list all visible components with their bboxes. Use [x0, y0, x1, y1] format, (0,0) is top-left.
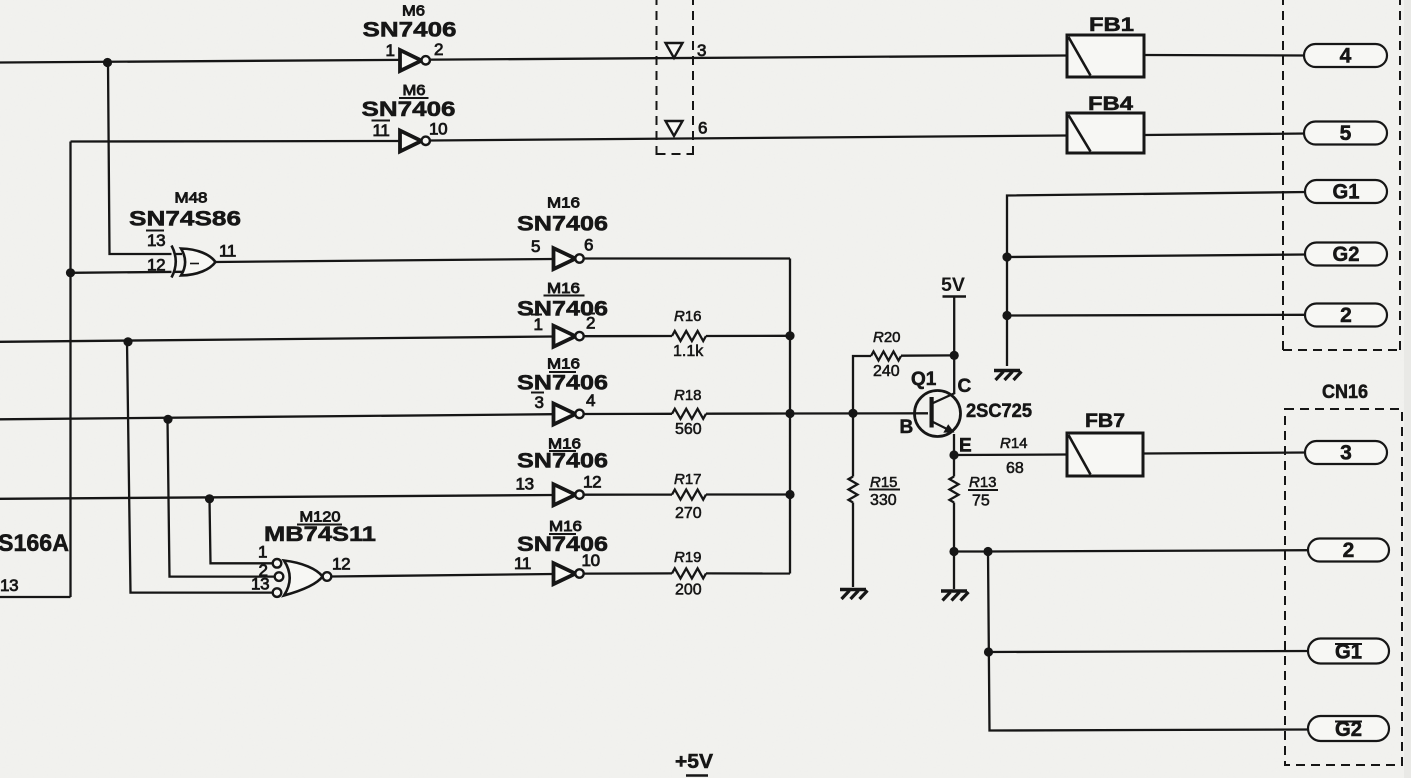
svg-text:R19: R19 [674, 549, 702, 566]
svg-text:13: 13 [251, 575, 269, 594]
svg-text:1: 1 [386, 41, 395, 60]
svg-text:11: 11 [219, 242, 236, 261]
svg-text:M16: M16 [547, 280, 580, 297]
svg-text:SN7406: SN7406 [362, 98, 456, 121]
svg-text:M16: M16 [547, 195, 580, 212]
svg-text:270: 270 [675, 505, 702, 522]
svg-text:2: 2 [1343, 539, 1355, 562]
svg-text:75: 75 [972, 493, 990, 510]
svg-text:240: 240 [873, 363, 900, 380]
svg-text:13: 13 [147, 231, 165, 250]
svg-text:13: 13 [516, 475, 534, 494]
svg-text:Q1: Q1 [911, 369, 937, 390]
svg-text:2: 2 [1340, 304, 1352, 327]
svg-text:5V: 5V [941, 275, 965, 296]
svg-text:E: E [959, 436, 972, 457]
svg-text:5: 5 [531, 237, 540, 256]
svg-text:R13: R13 [969, 474, 997, 491]
svg-text:12: 12 [583, 473, 601, 492]
svg-text:3: 3 [535, 393, 544, 412]
svg-text:+5V: +5V [675, 751, 714, 773]
svg-text:M48: M48 [175, 190, 208, 207]
svg-text:2: 2 [586, 314, 595, 333]
svg-text:10: 10 [582, 551, 600, 570]
svg-text:68: 68 [1006, 460, 1024, 477]
svg-text:13: 13 [0, 576, 18, 595]
svg-text:C: C [958, 376, 972, 397]
svg-text:R15: R15 [870, 474, 898, 491]
svg-text:M6: M6 [402, 3, 425, 20]
svg-text:G2: G2 [1333, 243, 1360, 266]
svg-text:1: 1 [534, 315, 543, 334]
svg-text:R20: R20 [873, 329, 901, 346]
svg-text:FB1: FB1 [1089, 15, 1135, 36]
svg-text:B: B [900, 417, 914, 438]
svg-text:M6: M6 [403, 82, 426, 99]
svg-text:10: 10 [429, 120, 447, 139]
svg-text:11: 11 [373, 121, 390, 140]
svg-text:6: 6 [584, 236, 593, 255]
svg-text:2SC725: 2SC725 [966, 401, 1032, 422]
svg-text:G1: G1 [1333, 181, 1360, 204]
svg-text:4: 4 [586, 391, 595, 410]
svg-text:200: 200 [675, 582, 702, 599]
svg-text:4: 4 [1340, 45, 1352, 68]
svg-text:12: 12 [332, 555, 350, 574]
svg-text:R14: R14 [1000, 435, 1028, 452]
svg-text:11: 11 [514, 554, 531, 573]
svg-text:CN16: CN16 [1322, 382, 1368, 403]
svg-text:3: 3 [697, 41, 706, 60]
svg-text:R17: R17 [674, 471, 702, 488]
svg-text:330: 330 [870, 492, 897, 509]
svg-text:SN74S86: SN74S86 [129, 208, 241, 231]
svg-text:FB7: FB7 [1085, 411, 1125, 432]
svg-text:12: 12 [147, 256, 165, 275]
svg-text:3: 3 [1340, 442, 1352, 465]
svg-text:M16: M16 [547, 356, 580, 373]
svg-text:1.1k: 1.1k [673, 343, 704, 360]
svg-text:S166A: S166A [0, 530, 69, 557]
svg-text:FB4: FB4 [1088, 94, 1134, 115]
svg-text:SN7406: SN7406 [363, 19, 457, 42]
svg-text:SN7406: SN7406 [517, 213, 608, 236]
svg-text:1: 1 [258, 543, 267, 562]
svg-text:5: 5 [1340, 122, 1352, 145]
svg-text:2: 2 [434, 40, 443, 59]
svg-text:560: 560 [675, 421, 702, 438]
svg-text:R16: R16 [674, 308, 702, 325]
svg-text:SN7406: SN7406 [517, 450, 608, 473]
svg-text:6: 6 [698, 119, 707, 138]
svg-text:R18: R18 [674, 387, 702, 404]
svg-text:MB74S11: MB74S11 [264, 523, 376, 546]
